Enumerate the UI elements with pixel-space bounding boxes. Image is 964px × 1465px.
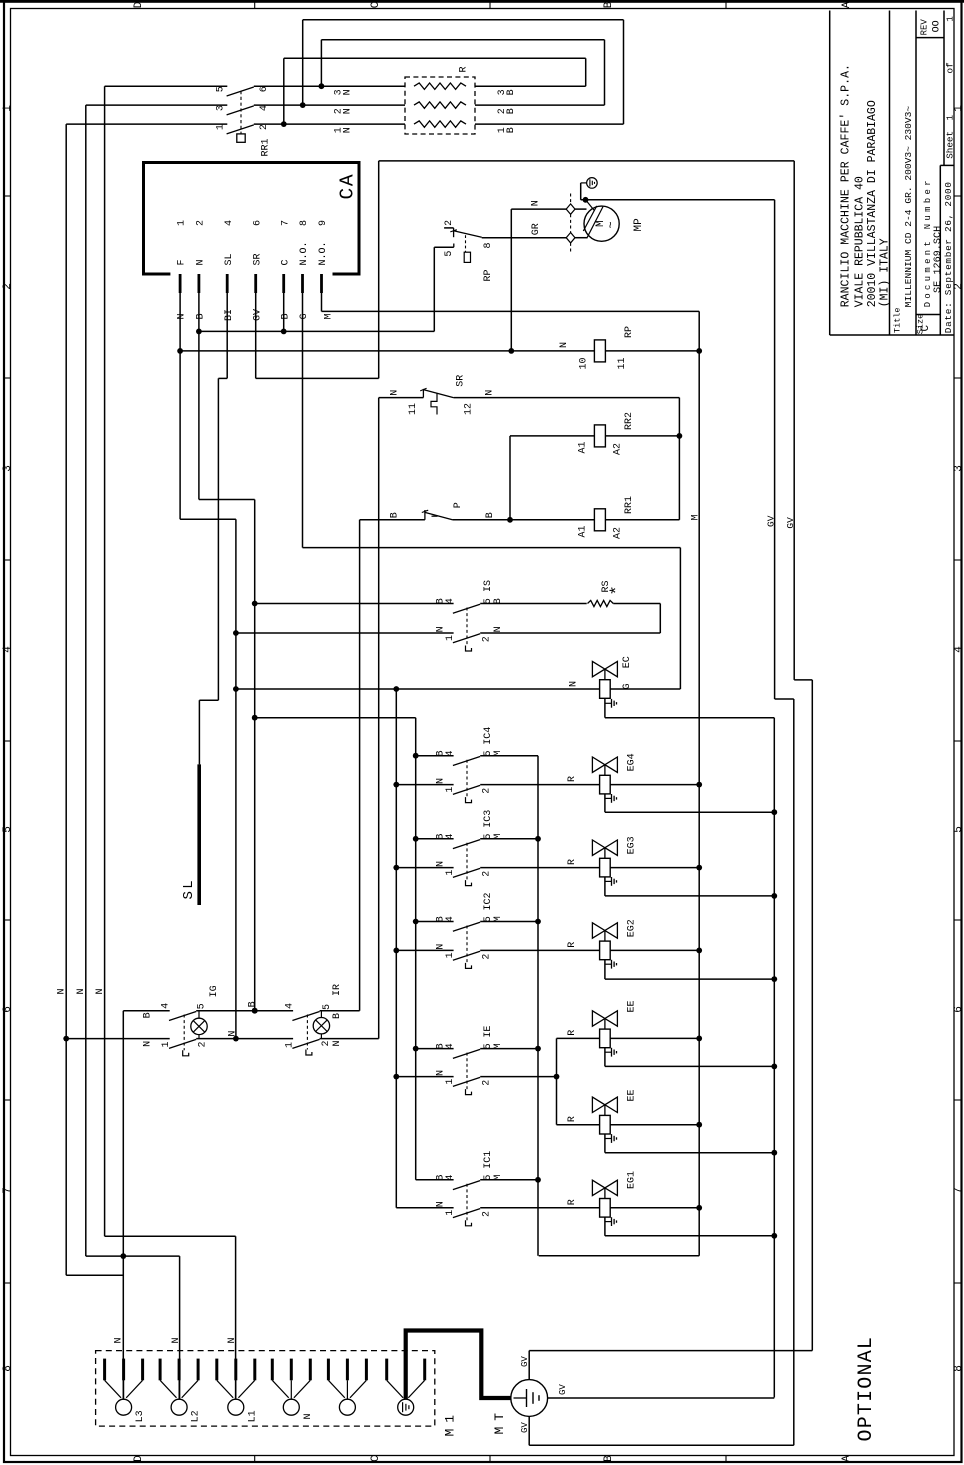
svg-text:11: 11 [617, 357, 628, 369]
svg-text:1: 1 [953, 105, 964, 112]
terminal M1-3 pins [215, 1359, 218, 1381]
wire N to IS/EC bus [180, 518, 236, 520]
svg-text:1: 1 [945, 16, 956, 22]
switch IE lower row [393, 1074, 399, 1080]
junction dot M/RP row [696, 348, 702, 354]
EG3 ground [604, 877, 606, 896]
coil EG1 [600, 1199, 611, 1218]
wire F/N from pin1 [179, 293, 181, 519]
wire phase jog to L1 [105, 1235, 236, 1237]
wire N rail right to SR riser [320, 1038, 379, 1040]
svg-text:4: 4 [445, 750, 456, 756]
wire MT right GV [548, 1397, 775, 1399]
svg-text:of: of [945, 62, 956, 73]
svg-text:4: 4 [445, 1043, 456, 1049]
svg-text:IS: IS [483, 580, 494, 592]
switch IR contact 4-5 [292, 1012, 319, 1021]
svg-text:BI: BI [224, 309, 235, 321]
junction dot N rail [233, 1036, 239, 1042]
CA pin 4 stub [226, 274, 229, 293]
wire M bus vertical [698, 311, 700, 1255]
svg-text:8: 8 [953, 1365, 964, 1372]
switch IG hook [183, 1050, 189, 1056]
level probe SL bar [197, 764, 201, 905]
svg-text:N: N [196, 259, 207, 265]
lamp IG [191, 1018, 207, 1034]
contactor RR1 armature box [237, 134, 245, 142]
lamp IR [313, 1017, 329, 1033]
relay coil RR2 [594, 425, 605, 447]
svg-text:4: 4 [259, 105, 270, 111]
wire motor earth to GV [581, 182, 587, 184]
svg-text:EG2: EG2 [626, 919, 637, 937]
junction dot B3 loop to N1 row [281, 121, 287, 127]
wire EE lower to M bus [610, 1124, 699, 1126]
switch SR [422, 389, 424, 398]
svg-text:D: D [133, 1, 145, 8]
CA pin 6 stub [254, 274, 257, 293]
svg-text:N: N [531, 200, 542, 206]
junction dot B row [196, 329, 202, 335]
wire IC2 lower to EG2 [480, 949, 599, 951]
svg-text:N: N [342, 108, 353, 114]
wire GV top line [379, 160, 795, 162]
wire B1 row right [475, 123, 624, 125]
svg-text:A: A [841, 1455, 853, 1462]
pressure switch RP actuator box [464, 252, 470, 262]
wire EC ground to bus [605, 717, 774, 719]
junction dot L2 jog / IG riser [120, 1253, 126, 1259]
svg-text:A1: A1 [577, 441, 588, 453]
svg-text:Sheet: Sheet [945, 131, 956, 159]
svg-text:MP: MP [633, 218, 645, 232]
svg-text:1: 1 [445, 787, 456, 793]
switch IC2 lower row [393, 948, 399, 954]
svg-text:2: 2 [482, 871, 493, 877]
svg-text:GV: GV [766, 515, 777, 527]
switch IC4 upper row [413, 753, 419, 759]
svg-text:N: N [390, 390, 401, 396]
wire IC3 upper right [480, 838, 538, 840]
svg-text:IC2: IC2 [483, 892, 494, 910]
svg-text:SR: SR [252, 253, 263, 265]
svg-text:N: N [177, 313, 188, 319]
svg-text:N: N [435, 1201, 446, 1207]
svg-text:1: 1 [445, 870, 456, 876]
svg-text:P: P [453, 502, 464, 508]
switch IC3 link dashed [466, 843, 468, 880]
switch IG contact 4-5 [169, 1012, 196, 1021]
wire B horizontal pins2-7 to RP5 [199, 330, 434, 332]
svg-text:OPTIONAL: OPTIONAL [855, 1336, 878, 1442]
resistor box R dashed [405, 77, 475, 134]
svg-text:4: 4 [224, 220, 235, 226]
wire B to IS bus [199, 499, 255, 501]
svg-text:N: N [485, 390, 496, 396]
svg-text:1: 1 [445, 952, 456, 958]
switch IE link dashed [466, 1053, 468, 1090]
svg-text:6: 6 [953, 1006, 964, 1013]
switch IR hook [306, 1050, 312, 1056]
svg-text:6: 6 [2, 1006, 14, 1013]
svg-text:2: 2 [953, 283, 964, 290]
svg-text:3: 3 [215, 105, 226, 111]
valve EG3 bowtie [592, 840, 617, 855]
svg-text:2: 2 [482, 1211, 493, 1217]
junction dot B1 loop to N2 row [300, 102, 306, 108]
svg-text:B: B [332, 1013, 343, 1019]
terminal M1-2 circle [171, 1399, 187, 1415]
svg-text:EG1: EG1 [626, 1171, 637, 1189]
svg-text:M1: M1 [443, 1409, 458, 1437]
wire N rail mid [196, 1038, 293, 1040]
switch P [424, 510, 426, 520]
wire BI from pin4 to SL probe [226, 293, 228, 378]
svg-text:2: 2 [321, 1040, 332, 1046]
valve EG4 stem [604, 765, 606, 776]
svg-text:C: C [920, 325, 932, 332]
switch IR link dashed [306, 1015, 308, 1050]
svg-text:B: B [506, 89, 517, 95]
svg-text:B: B [280, 313, 291, 319]
svg-text:B: B [196, 313, 207, 319]
terminal M1-6 earth bars [402, 1402, 404, 1412]
svg-text:2: 2 [444, 220, 455, 226]
svg-text:1: 1 [284, 1042, 295, 1048]
wire SR row right [454, 397, 680, 399]
wire RR2 row [510, 435, 594, 437]
ground bus [773, 718, 775, 1398]
svg-text:N.O.: N.O. [318, 241, 329, 265]
wire RS loop [613, 603, 660, 605]
svg-text:N: N [227, 1337, 238, 1343]
svg-text:Title: Title [893, 307, 903, 333]
wire IS lower row [236, 632, 454, 634]
wire IC4 upper right [480, 755, 538, 757]
controller CA box [144, 163, 360, 275]
wire to EE upper [557, 1037, 600, 1039]
switch IG contact 1-2 [169, 1039, 196, 1048]
wire G from pin8 [302, 293, 304, 548]
svg-text:2: 2 [196, 220, 207, 226]
motor earth circle [587, 178, 598, 189]
svg-text:Document Number: Document Number [923, 177, 933, 307]
terminal M1-5 pins [327, 1359, 330, 1381]
svg-text:4: 4 [445, 1175, 456, 1181]
svg-text:N: N [143, 1041, 154, 1047]
terminal M1-6 circle [398, 1399, 414, 1415]
svg-text:B: B [247, 1001, 258, 1007]
valve EE bowtie [592, 1011, 617, 1026]
switch IS hook [466, 646, 472, 652]
svg-text:N: N [303, 1413, 314, 1419]
terminal M1-3 circle [228, 1399, 244, 1415]
svg-text:MILLENNIUM CD 2-4 GR. 200V3~ 2: MILLENNIUM CD 2-4 GR. 200V3~ 230V3~ [903, 106, 914, 308]
terminal M1-3 fork [217, 1380, 233, 1398]
svg-text:RP: RP [624, 326, 635, 338]
svg-text:N: N [228, 1031, 239, 1037]
svg-text:7: 7 [2, 1187, 14, 1194]
wire B rail mid [196, 1010, 293, 1012]
wire B2 row right [475, 104, 605, 106]
switch IS contact 4-5 [453, 604, 480, 613]
wire GV2 from top line [793, 161, 795, 680]
wire GR from RP [482, 237, 567, 239]
wire diamond to motor lower [575, 237, 588, 239]
resistor R element 3 [414, 121, 466, 127]
svg-text:GV: GV [558, 1384, 568, 1395]
wire B3 loop [585, 58, 587, 86]
svg-text:R: R [567, 942, 578, 948]
svg-text:2: 2 [2, 283, 14, 290]
wire B bus [415, 718, 417, 1180]
terminal M1-6 fork [387, 1380, 403, 1398]
switch IC4 link dashed [466, 760, 468, 797]
terminal M1-4 pins [271, 1359, 274, 1381]
wire phase jog to L2 [86, 1255, 180, 1257]
wire RP terminal 5 riser [433, 247, 435, 331]
junction dot RP row [177, 348, 183, 354]
wire phase N row3 left corner [66, 123, 227, 125]
wire IC1 upper right [480, 1179, 538, 1181]
junction dot N bus [393, 686, 399, 692]
pressure switch RP terminal 2 [444, 227, 454, 229]
CA pin 9 stub [320, 274, 323, 293]
terminal M1-2 fork [160, 1380, 176, 1398]
svg-text:IC1: IC1 [483, 1151, 494, 1169]
wire GV1 from motor earth [774, 200, 776, 699]
junction dot motor earth [583, 197, 589, 203]
svg-text:G: G [622, 683, 633, 689]
svg-text:IR: IR [332, 984, 343, 996]
svg-text:1: 1 [2, 105, 14, 112]
valve EE stem [604, 1019, 606, 1030]
svg-text:EE: EE [626, 1089, 637, 1101]
svg-text:B: B [506, 127, 517, 133]
svg-text:MT: MT [492, 1407, 507, 1435]
svg-text:N: N [171, 1337, 182, 1343]
junction dot RR2 row [677, 433, 683, 439]
svg-text:R: R [459, 66, 470, 72]
EE lower ground [604, 1134, 606, 1153]
coil EG3 [600, 858, 611, 877]
svg-text:G: G [299, 313, 310, 319]
svg-text:1: 1 [215, 124, 226, 130]
svg-text:10: 10 [579, 357, 590, 369]
svg-text:D: D [133, 1455, 145, 1462]
svg-text:N: N [76, 988, 87, 994]
svg-text:6: 6 [252, 220, 263, 226]
svg-text:GV: GV [520, 1422, 530, 1433]
svg-text:RANCILIO MACCHINE PER CAFFE' S: RANCILIO MACCHINE PER CAFFE' S.P.A. [840, 64, 853, 307]
svg-text:REV: REV [919, 19, 929, 36]
terminal M1-1 circle [116, 1399, 132, 1415]
connector diamond N [566, 204, 575, 214]
EG2 ground [604, 960, 606, 979]
svg-text:B: B [603, 1, 615, 8]
switch IS contact 1-2 [453, 634, 480, 643]
thick earth wire M1-6 to MT [406, 1331, 511, 1400]
connector dashed line [570, 194, 572, 204]
wire M bus bottom loop [539, 1255, 700, 1257]
terminal M1-4 circle [283, 1399, 299, 1415]
svg-text:C: C [370, 1455, 382, 1462]
svg-text:5: 5 [953, 826, 964, 833]
wire B rail [123, 1010, 169, 1012]
svg-text:SL: SL [224, 253, 235, 265]
svg-text:IC3: IC3 [483, 810, 494, 828]
wire SR to RR coils [678, 398, 680, 520]
junction dot EG4 gnd [771, 809, 777, 815]
svg-text:EE: EE [626, 1000, 637, 1012]
CA pin 7 stub [282, 274, 285, 293]
svg-text:7: 7 [953, 1187, 964, 1194]
svg-text:N: N [559, 342, 570, 348]
svg-text:2: 2 [482, 954, 493, 960]
svg-text:N: N [435, 626, 446, 632]
svg-text:4: 4 [2, 646, 14, 653]
svg-text:L2: L2 [191, 1410, 202, 1422]
wire N to pump [510, 209, 512, 351]
junction dot IS upper row [252, 601, 258, 607]
svg-text:B: B [506, 108, 517, 114]
svg-text:R: R [567, 1030, 578, 1036]
switch IC2 hook [466, 963, 472, 969]
coil EE [600, 1115, 611, 1134]
svg-text:20010 VILLASTANZA DI PARABIAGO: 20010 VILLASTANZA DI PARABIAGO [866, 100, 879, 307]
svg-text:*: * [609, 585, 628, 595]
wire IS upper row [255, 603, 454, 605]
terminal M1-5 fork [328, 1380, 344, 1398]
svg-text:N: N [95, 988, 106, 994]
IG riser to terminal1 [122, 1011, 124, 1400]
svg-text:N: N [435, 1070, 446, 1076]
svg-text:N: N [493, 626, 504, 632]
wire EG3 to M bus [610, 867, 699, 869]
svg-text:N: N [435, 778, 446, 784]
junction dot N rail at phase [63, 1036, 69, 1042]
switch IC2 link dashed [466, 926, 468, 963]
svg-text:N.O.: N.O. [299, 241, 310, 265]
svg-text:3: 3 [2, 465, 14, 472]
wire B from pin2 [198, 293, 200, 500]
zone ticks right border [954, 195, 962, 197]
wire B1 loop [623, 20, 625, 124]
valve EC bowtie [592, 661, 617, 676]
switch IS link dashed [466, 608, 468, 646]
wire EE upper to M bus [610, 1037, 699, 1039]
svg-text:RR1: RR1 [624, 496, 635, 514]
wire MT top GV [528, 1351, 530, 1380]
svg-text:R: R [567, 1199, 578, 1205]
switch IC3 upper row [413, 836, 419, 842]
svg-text:N: N [435, 861, 446, 867]
junction dot EC row [233, 686, 239, 692]
terminal M1-1 fork [105, 1380, 121, 1398]
svg-text:IG: IG [209, 985, 220, 997]
svg-text:N: N [435, 944, 446, 950]
wire EG1 to M bus [610, 1207, 699, 1209]
resistor R element 1 [414, 83, 466, 89]
svg-text:B: B [143, 1012, 154, 1018]
switch IC1 link dashed [466, 1184, 468, 1221]
svg-text:4: 4 [284, 1003, 295, 1009]
svg-text:B: B [603, 1455, 615, 1462]
junction dot pin7 [281, 329, 287, 335]
svg-text:A1: A1 [577, 525, 588, 537]
svg-text:N: N [342, 89, 353, 95]
svg-text:1: 1 [445, 1210, 456, 1216]
svg-text:VIALE REPUBBLICA 40: VIALE REPUBBLICA 40 [854, 176, 867, 307]
svg-text:CA: CA [337, 173, 359, 200]
svg-text:4: 4 [445, 916, 456, 922]
svg-text:GV: GV [785, 517, 796, 529]
CA pin 2 stub [197, 274, 200, 293]
contactor RR1 contact 5-6 [227, 87, 254, 96]
svg-text:~: ~ [605, 221, 619, 228]
coil EG2 [600, 941, 611, 960]
wire RR2-RR1 link [509, 436, 511, 520]
svg-text:5: 5 [444, 251, 455, 257]
svg-text:1: 1 [945, 115, 956, 121]
svg-text:L1: L1 [247, 1410, 258, 1422]
valve EG4 bowtie [592, 757, 617, 772]
svg-text:C: C [280, 259, 291, 265]
wire B2 loop [604, 40, 606, 105]
junction dot B branch row [252, 715, 258, 721]
svg-text:3: 3 [953, 465, 964, 472]
wire GV from pin6 [255, 293, 257, 378]
svg-text:2: 2 [197, 1041, 208, 1047]
switch IC1 lower row [396, 1207, 453, 1209]
svg-text:GV: GV [520, 1356, 530, 1367]
relay coil RR1 [594, 509, 605, 531]
svg-text:1: 1 [445, 1079, 456, 1085]
svg-text:1: 1 [177, 220, 188, 226]
svg-text:11: 11 [408, 403, 419, 415]
junction dot IS lower row [233, 630, 239, 636]
svg-text:2: 2 [482, 788, 493, 794]
EG1 ground [604, 1217, 606, 1236]
wire to EE lower [557, 1124, 600, 1126]
wire phase jog to L3 riser [66, 1274, 123, 1276]
wire GV riser to top line [378, 161, 380, 379]
wire P row riser [359, 520, 361, 1011]
EC ground [604, 698, 606, 717]
svg-text:F: F [177, 259, 188, 265]
wire B branch row [255, 717, 416, 719]
CA pin 1 stub [179, 274, 182, 293]
terminal M1-6 pins [385, 1359, 388, 1381]
switch IC4 lower row [393, 782, 399, 788]
zone ticks left border [4, 195, 11, 197]
switch IG link dashed [183, 1015, 185, 1051]
svg-text:5: 5 [322, 1004, 333, 1010]
svg-text:12: 12 [464, 403, 475, 415]
wire EE split vertical [556, 1038, 558, 1124]
motor MP circle [584, 206, 619, 241]
wire N rail [66, 1038, 170, 1040]
EE upper ground [604, 1048, 606, 1067]
svg-text:2: 2 [482, 636, 493, 642]
svg-text:5: 5 [196, 1003, 207, 1009]
svg-text:4: 4 [160, 1003, 171, 1009]
connector diamond GR [566, 233, 575, 243]
page top heavy edge [0, 0, 964, 3]
svg-text:EG3: EG3 [626, 836, 637, 854]
valve EG3 stem [604, 848, 606, 859]
svg-text:R: R [567, 859, 578, 865]
